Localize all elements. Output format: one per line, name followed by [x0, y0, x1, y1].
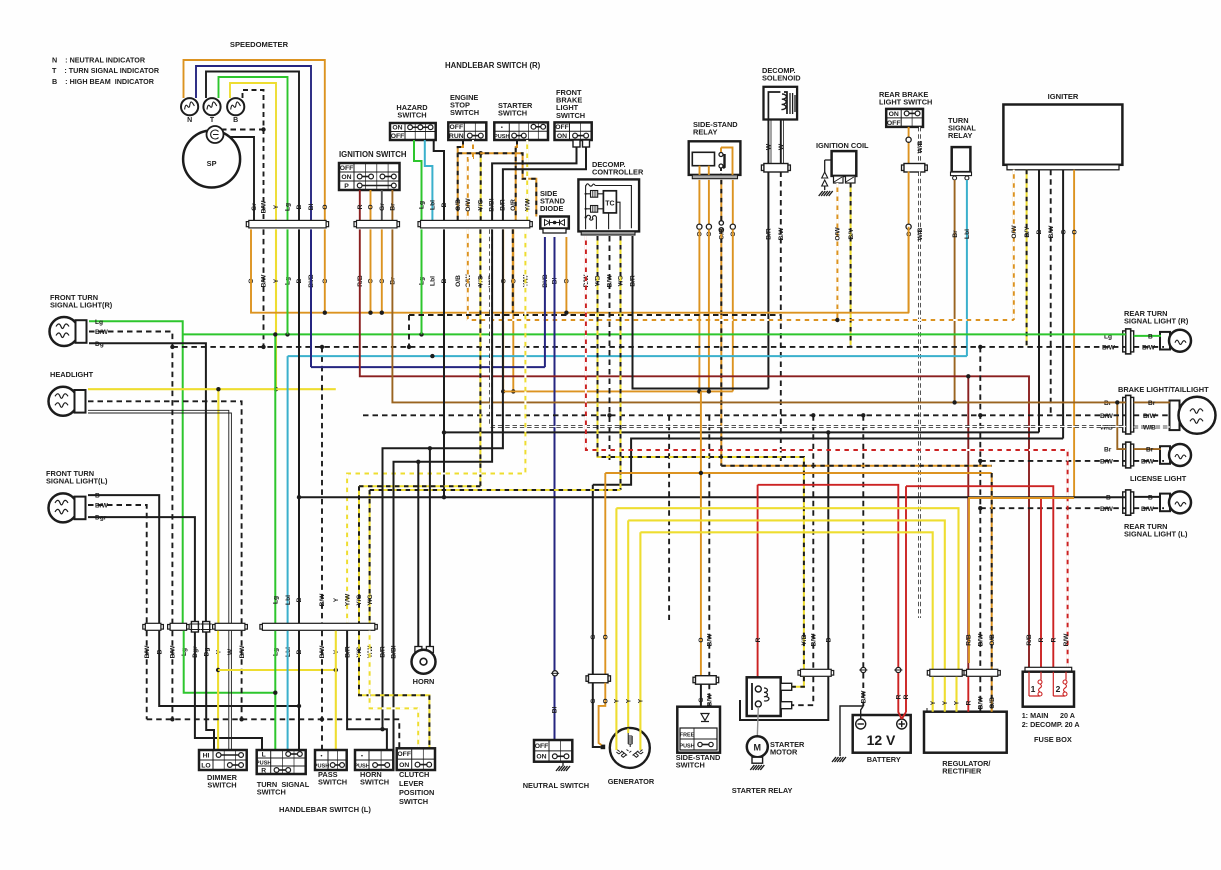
- svg-text:FUSE BOX: FUSE BOX: [1034, 735, 1072, 744]
- svg-text:HANDLEBAR SWITCH (R): HANDLEBAR SWITCH (R): [445, 61, 541, 70]
- svg-text:B/W: B/W: [1141, 506, 1155, 513]
- wire B net rear turn L: [298, 229, 300, 623]
- wire B/W speedometer top: [243, 90, 264, 222]
- connector Dg plug: [201, 622, 212, 633]
- wire R fuse riser: [1040, 498, 1042, 672]
- decomp controller U1: [578, 179, 639, 235]
- junction O bus x381: [380, 311, 384, 315]
- wire Lbl bus left: [288, 355, 433, 357]
- svg-text:B: B: [296, 597, 303, 602]
- label label SIDE STAND DIODE: [540, 189, 566, 213]
- wire Lg speedo drop: [287, 229, 289, 334]
- label label B rl1: [1106, 494, 1111, 501]
- wire Lg bar4 drop: [274, 334, 276, 623]
- svg-text:Lg: Lg: [273, 596, 280, 604]
- wire Lg bar4 down: [274, 631, 276, 750]
- connector bullet B/W battery bullet: [859, 667, 867, 672]
- wire Y regulator 2: [944, 677, 946, 712]
- front brake switch pins: [573, 140, 590, 147]
- junction Lg bus speedo: [285, 332, 289, 336]
- wire B/W L1 down: [146, 631, 148, 720]
- svg-text:B/W: B/W: [707, 693, 714, 707]
- wire O gen bus: [604, 473, 606, 674]
- generator: [601, 728, 650, 768]
- indicator bulb T: [203, 98, 220, 115]
- svg-text:Y: Y: [942, 700, 949, 705]
- connector circle O rear brake 2: [906, 224, 911, 229]
- regulator rectifier: [924, 708, 1007, 753]
- wire starter motor lead: [757, 707, 758, 737]
- junction B/W bus decomp: [607, 413, 611, 417]
- wire B hazard: [434, 140, 444, 220]
- label label FRONT TURN SIGNAL LIGHT(R): [50, 293, 113, 310]
- svg-text:B/W: B/W: [95, 503, 109, 510]
- svg-text:DIODE: DIODE: [540, 204, 563, 213]
- svg-text:B/W: B/W: [1100, 458, 1114, 465]
- wire Lbl bus: [432, 355, 967, 357]
- svg-text:SWITCH: SWITCH: [498, 109, 527, 118]
- svg-text:SIGNAL LIGHT(L): SIGNAL LIGHT(L): [46, 477, 108, 486]
- label label B rl2: [1148, 494, 1153, 501]
- svg-text:IGNITER: IGNITER: [1048, 92, 1079, 101]
- label label B/W l1: [1100, 458, 1114, 465]
- svg-text:PUSH: PUSH: [354, 763, 370, 769]
- wire B/W starter relay low: [792, 677, 814, 705]
- svg-text:B: B: [441, 202, 448, 207]
- label label W/B b2: [1143, 425, 1156, 432]
- wire B starter relay drop: [827, 432, 829, 669]
- junction O bus2 x513: [511, 389, 515, 393]
- wire B speedometer top: [206, 72, 299, 223]
- switch turn signal: [256, 750, 306, 774]
- wire labels handlebar R upper: [419, 198, 532, 212]
- svg-text:O/B: O/B: [455, 199, 462, 211]
- svg-text:B/W: B/W: [861, 690, 868, 704]
- wire Y speedometer top: [230, 83, 276, 222]
- svg-text:B/Bl: B/Bl: [489, 198, 496, 211]
- svg-text:G: G: [590, 698, 597, 703]
- label label IGNITION COIL: [816, 141, 869, 150]
- junction B/R horn: [428, 446, 432, 450]
- label label B/W l2: [1141, 458, 1155, 465]
- label label HANDLEBAR SWITCH (R): [445, 61, 541, 70]
- svg-text:B/W: B/W: [1102, 344, 1116, 351]
- label label FUSE BOX: [1034, 735, 1072, 744]
- battery: [853, 715, 911, 753]
- lamp license light: [1160, 444, 1191, 466]
- wire Gr ignition: [381, 190, 383, 220]
- label label T: [210, 117, 215, 124]
- decomp solenoid: [764, 87, 798, 120]
- wire B/W main bus: [363, 414, 1126, 416]
- svg-text:PUSH: PUSH: [314, 763, 330, 769]
- wire B/Y igniter: [1026, 170, 1028, 346]
- wire B/R horn tap: [429, 448, 431, 648]
- svg-text:R/B: R/B: [1026, 634, 1033, 646]
- svg-text:Dg: Dg: [95, 341, 104, 348]
- svg-text:O: O: [368, 204, 375, 209]
- svg-text:2: DECOMP. 20 A: 2: DECOMP. 20 A: [1022, 720, 1080, 729]
- svg-text:O/B: O/B: [455, 275, 462, 287]
- svg-text:B: B: [296, 204, 303, 209]
- wire B/W starter relay riser: [812, 415, 814, 669]
- connector connector L2: [168, 623, 190, 630]
- connector starter relay connector: [798, 669, 834, 676]
- svg-text:SWITCH: SWITCH: [397, 111, 426, 120]
- wire Y generator 3: [639, 532, 641, 728]
- svg-text:IGNITION COIL: IGNITION COIL: [816, 141, 869, 150]
- label label REAR TURN SIGNAL LIGHT (L): [1124, 522, 1188, 539]
- wire O/B engine stop: [458, 140, 463, 220]
- label label B/W rr1: [1102, 344, 1116, 351]
- svg-text:B/W: B/W: [1143, 413, 1157, 420]
- wire R/B bus: [360, 229, 1029, 671]
- svg-text:1: 1: [1031, 684, 1036, 694]
- wire O speedo right drop: [324, 229, 326, 312]
- label label B/W ftl: [95, 503, 109, 510]
- svg-text:GENERATOR: GENERATOR: [608, 777, 655, 786]
- svg-text:B/W: B/W: [811, 633, 818, 647]
- label label IGNITER: [1048, 92, 1079, 101]
- svg-text:B/W: B/W: [978, 633, 985, 647]
- wire Lbl bar4 down: [287, 631, 289, 750]
- svg-text:PUSH: PUSH: [256, 760, 272, 766]
- label label REAR BRAKE LIGHT SWITCH: [879, 90, 932, 107]
- svg-text:M: M: [754, 743, 762, 753]
- svg-text:•: •: [361, 753, 363, 759]
- connector brake light connector: [1123, 395, 1134, 434]
- junction B bus starter relay: [826, 430, 830, 434]
- wire B/W sidestand riser: [708, 415, 710, 675]
- wire Bl speedo drop: [310, 229, 312, 367]
- svg-text:B : HIGH BEAM INDICATOR: B : HIGH BEAM INDICATOR: [52, 77, 155, 86]
- wire B/W L2 down: [171, 631, 173, 720]
- svg-text:BRAKE LIGHT/TAILLIGHT: BRAKE LIGHT/TAILLIGHT: [1118, 385, 1209, 394]
- junction B/W bottom 241: [239, 717, 243, 721]
- svg-text:RELAY: RELAY: [693, 128, 717, 137]
- wire O bus y473: [605, 472, 991, 474]
- junction B/W bus regulator1: [978, 345, 982, 349]
- ground neutral stem: [562, 762, 564, 766]
- svg-text:Lg: Lg: [285, 203, 292, 211]
- wire Dgr down: [195, 632, 262, 750]
- wire Y regulator 3: [955, 677, 957, 712]
- label label B/W rl2: [1141, 506, 1155, 513]
- wire R to plus 2: [902, 712, 906, 719]
- label label B: [233, 117, 238, 124]
- svg-text:B/W: B/W: [95, 329, 109, 336]
- svg-text:Y: Y: [625, 698, 632, 703]
- svg-text:SWITCH: SWITCH: [676, 761, 705, 770]
- svg-text:B/R: B/R: [766, 228, 773, 240]
- turn signal relay: [951, 147, 972, 180]
- wire B/W side-stand low: [708, 684, 710, 707]
- wire O bus2: [503, 390, 733, 392]
- junction Lg bottom: [273, 691, 277, 695]
- junction B/Bl horn: [416, 460, 420, 464]
- label label DECOMP SOLENOID: [762, 66, 801, 83]
- wire B/W igniter: [1050, 170, 1052, 415]
- label label Lg rr: [1104, 333, 1112, 340]
- wire O igniter route: [969, 498, 1074, 663]
- wire W/B bus: [491, 229, 1126, 426]
- label label HAZARD SWITCH: [396, 103, 428, 120]
- wire O/W ignition coil: [836, 183, 838, 320]
- svg-text:PUSH: PUSH: [680, 744, 695, 750]
- label label Dg: [95, 341, 104, 348]
- indicator bulb B: [227, 98, 244, 115]
- svg-text:ON: ON: [557, 133, 567, 140]
- wire B/W rear turn R a: [1134, 346, 1164, 348]
- wire Lbl hazard: [425, 140, 433, 220]
- junction O/B junction: [479, 151, 483, 155]
- wire O/B relay link: [721, 465, 991, 467]
- svg-text:SPEEDOMETER: SPEEDOMETER: [230, 40, 289, 49]
- wire B/W L3 down: [241, 631, 243, 720]
- svg-text:B/W: B/W: [1100, 506, 1114, 513]
- wire O/B regulator riser: [991, 473, 993, 669]
- junction Lg bus bar4: [273, 332, 277, 336]
- wire B/Bl front brake pin1: [492, 147, 576, 220]
- wire Gr speedometer: [224, 137, 255, 222]
- svg-text:B/Y: B/Y: [848, 228, 855, 240]
- wire Br license a: [1134, 448, 1161, 450]
- junction O bus2 x503: [501, 389, 505, 393]
- wire R battery fuse bus: [906, 486, 1053, 672]
- svg-text:Lbl: Lbl: [285, 595, 292, 605]
- connector rear turn R connector: [1123, 329, 1134, 354]
- wire B/Bl loop: [394, 229, 493, 750]
- wire Y generator 1: [615, 508, 617, 728]
- wire W headlight double: [88, 410, 231, 623]
- svg-text:O: O: [603, 698, 610, 703]
- label label HEADLIGHT: [50, 370, 94, 379]
- svg-text:Y: Y: [930, 700, 937, 705]
- label label Br b1: [1104, 400, 1112, 407]
- junction B/W bus left end: [170, 345, 174, 349]
- wire labels sidestand lower: [698, 693, 713, 707]
- svg-text:Gr: Gr: [379, 203, 386, 211]
- junction B/W bus battery: [861, 413, 865, 417]
- wire Y/G engine stop branch: [480, 153, 482, 220]
- svg-text:IGNITION SWITCH: IGNITION SWITCH: [339, 150, 407, 159]
- wire labels solenoid W: [766, 143, 786, 150]
- junction B/W speedometer: [261, 127, 265, 131]
- svg-text:SWITCH: SWITCH: [399, 797, 428, 806]
- svg-text:W/B: W/B: [917, 227, 924, 240]
- wire B/W left riser: [668, 415, 670, 620]
- wire Br brake a: [1134, 401, 1170, 403]
- wire B/R solenoid: [767, 172, 769, 389]
- wire Dgr front turn L: [88, 517, 195, 621]
- wire O/B link: [458, 153, 537, 216]
- svg-text:Lbl: Lbl: [430, 276, 437, 286]
- wire B/W hazard link: [409, 314, 781, 316]
- wire Lg rear turn R a: [1134, 335, 1161, 337]
- svg-text:B: B: [1148, 494, 1153, 501]
- svg-text:G: G: [1060, 229, 1067, 234]
- svg-text:RUN: RUN: [449, 133, 464, 140]
- connector circle O/B relay a: [719, 221, 723, 225]
- svg-text:SWITCH: SWITCH: [257, 788, 286, 797]
- wire Lg speedometer top: [219, 77, 288, 222]
- svg-text:HEADLIGHT: HEADLIGHT: [50, 370, 94, 379]
- junction Y link bar3: [216, 668, 220, 672]
- label label DECOMP CONTROLLER: [592, 160, 644, 177]
- svg-text:B/W: B/W: [1048, 225, 1055, 239]
- svg-text:B/W: B/W: [1100, 413, 1114, 420]
- wire R regulator: [967, 677, 969, 712]
- wire O igniter: [1073, 170, 1075, 498]
- connector circle O relay 2: [706, 224, 711, 229]
- wire B/W to minus: [861, 706, 864, 719]
- svg-text:B/W: B/W: [261, 274, 268, 288]
- svg-text:Y/B: Y/B: [801, 634, 808, 645]
- label label IGNITION SWITCH: [339, 150, 407, 159]
- wire O bus upper: [251, 229, 909, 312]
- connector connector handlebar L: [260, 623, 377, 630]
- wire B/W decomp drop: [609, 236, 611, 461]
- wire O ignition 1: [370, 190, 372, 220]
- svg-text:O/R: O/R: [510, 199, 517, 211]
- connector handlebar R connector: [418, 220, 532, 228]
- connector circle O rear brake: [906, 137, 911, 142]
- lamp front turn signal R: [50, 317, 87, 346]
- label label FRONT TURN SIGNAL LIGHT(L): [46, 469, 108, 486]
- wire labels gen lower: [590, 698, 645, 703]
- wire O handlebar drop 2: [512, 229, 514, 391]
- junction O bus y473 sidestand: [699, 471, 703, 475]
- fuse box: [1023, 667, 1074, 706]
- svg-text:ON: ON: [889, 111, 899, 118]
- svg-text:MOTOR: MOTOR: [770, 748, 798, 757]
- wire labels decomp lower: [583, 274, 637, 288]
- wire labels rear brake upper: [917, 140, 924, 153]
- horn: [412, 647, 436, 674]
- junction O bus x370: [368, 311, 372, 315]
- svg-text:R: R: [896, 694, 903, 699]
- switch dimmer: [199, 750, 247, 770]
- connector speedometer connector: [246, 220, 328, 228]
- wire W dimmer double: [229, 631, 232, 750]
- wire labels ignition coil lower: [835, 227, 855, 241]
- wire Br turn signal relay: [954, 180, 956, 401]
- wire O rear brake lower: [908, 172, 910, 313]
- wire Y bottom link: [218, 669, 336, 671]
- svg-text:OFF: OFF: [887, 120, 901, 127]
- wire Y/G decomp drop: [620, 236, 622, 490]
- wire B starter relay low: [740, 677, 828, 720]
- label label B rr: [1148, 333, 1153, 340]
- wire Y/G link2: [370, 489, 621, 491]
- switch rear brake light: [886, 109, 923, 127]
- wire G side-stand low: [700, 684, 702, 707]
- wire Br license drop: [1117, 402, 1125, 449]
- wire Y/W starter: [526, 140, 528, 220]
- wire O side-stand relay 1b: [698, 229, 700, 391]
- wire B/W bottom bus: [147, 719, 400, 748]
- junction B bus handlebar: [442, 430, 446, 434]
- wire labels regulator upper: [966, 633, 996, 647]
- wire B rear turn L a: [1134, 496, 1161, 498]
- wire B/W bus rear turn R: [172, 346, 1125, 348]
- svg-text:OFF: OFF: [555, 124, 569, 131]
- wire Bl neutral run: [554, 237, 556, 740]
- wire Y/W bus: [347, 229, 525, 623]
- junction Y bus speedo: [274, 387, 278, 391]
- switch horn: [354, 750, 393, 770]
- wire Lg front turn R: [89, 321, 183, 623]
- indicator bulb N: [181, 98, 198, 115]
- wire O/B side-stand relay b: [720, 229, 722, 465]
- wire B/W headlight: [88, 401, 242, 623]
- svg-text:SP: SP: [207, 159, 217, 168]
- wire G bus: [593, 439, 1063, 485]
- switch pass: [314, 750, 347, 770]
- wire B front turn L: [88, 495, 159, 623]
- svg-text:T : TURN SIGNAL INDICATOR: T : TURN SIGNAL INDICATOR: [52, 66, 160, 75]
- svg-text:G: G: [590, 634, 597, 639]
- svg-text:N: N: [187, 117, 192, 124]
- wire Y/B bus: [598, 236, 804, 669]
- connector Dgr plug: [189, 622, 200, 633]
- wire Dg down: [206, 632, 214, 750]
- junction B/W bus license: [978, 459, 982, 463]
- junction B/W bus x409: [407, 345, 411, 349]
- svg-text:P: P: [344, 183, 349, 190]
- wire labels battery wires: [861, 690, 911, 704]
- wire Y bus 1: [616, 508, 958, 669]
- junction O/W bus coil: [835, 318, 839, 322]
- wire labels speedometer lower: [248, 274, 329, 288]
- junction Y bottom 335: [334, 668, 338, 672]
- svg-text:R/W: R/W: [1063, 633, 1070, 647]
- svg-text:B/W: B/W: [1141, 458, 1155, 465]
- wire B/W brake a: [1134, 414, 1170, 416]
- wire Dg front turn R: [89, 343, 206, 621]
- svg-text:ON: ON: [536, 754, 546, 761]
- svg-text:O/W: O/W: [835, 227, 842, 241]
- connector regulator connector B: [964, 669, 1000, 676]
- label label REGULATOR/RECTIFIER: [942, 759, 990, 776]
- svg-text:SWITCH: SWITCH: [318, 778, 347, 787]
- wire Lg bus: [183, 333, 1126, 335]
- wire O diode drop: [565, 237, 567, 313]
- junction O bus2 x699: [697, 389, 701, 393]
- svg-text:POSITION: POSITION: [399, 788, 434, 797]
- wire Bl bus: [311, 366, 545, 368]
- wire B/W speedometer branch: [221, 129, 264, 131]
- wire R starter relay bus: [758, 485, 899, 667]
- svg-text:R: R: [966, 700, 973, 705]
- label legend indicator key: [52, 56, 160, 86]
- svg-text:Lbl: Lbl: [964, 229, 971, 239]
- junction O bus x324: [323, 311, 327, 315]
- svg-text:B/R: B/R: [380, 646, 387, 658]
- label label PASS SWITCH: [318, 770, 347, 787]
- svg-text:ON: ON: [399, 762, 409, 769]
- svg-text:Br: Br: [1146, 447, 1154, 454]
- wire O rear brake: [908, 127, 910, 164]
- svg-text:HORN: HORN: [413, 677, 435, 686]
- svg-text:OFF: OFF: [535, 743, 549, 750]
- wire labels rear brake lower: [906, 227, 924, 240]
- wire B igniter: [1038, 170, 1040, 433]
- wire Br ignition: [391, 190, 393, 220]
- side stand diode: [540, 217, 569, 234]
- svg-text:Y: Y: [954, 700, 961, 705]
- svg-text:B/R: B/R: [500, 199, 507, 211]
